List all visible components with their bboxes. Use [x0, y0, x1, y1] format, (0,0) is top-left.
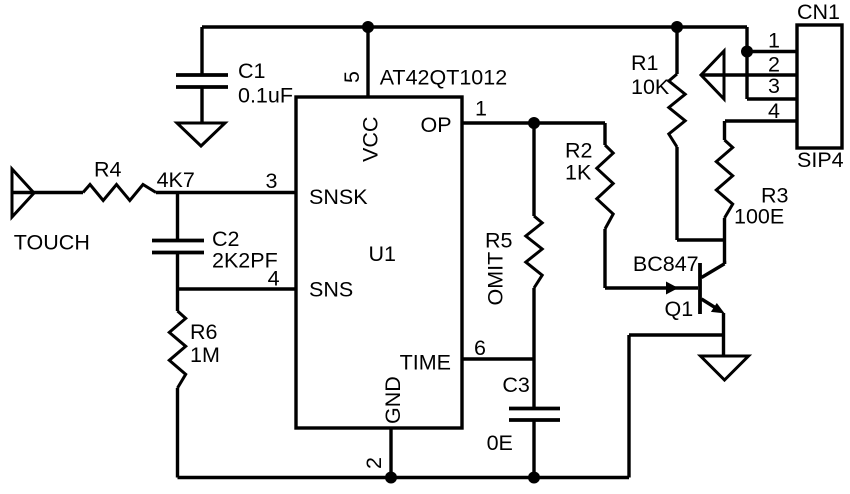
svg-text:OMIT: OMIT — [484, 252, 508, 306]
TOUCH electrode symbol — [12, 169, 34, 217]
wire R1 to collector node — [677, 238, 724, 241]
svg-text:Q1: Q1 — [665, 297, 694, 321]
ground (Q1 emitter) — [701, 356, 749, 380]
svg-text:SNS: SNS — [309, 278, 353, 302]
svg-text:AT42QT1012: AT42QT1012 — [380, 66, 507, 90]
svg-text:4: 4 — [768, 99, 780, 123]
svg-text:R2: R2 — [565, 138, 592, 162]
node C3 bottom junction — [528, 472, 540, 484]
svg-text:CN1: CN1 — [797, 0, 840, 24]
svg-text:C3: C3 — [502, 373, 530, 397]
arrow into base — [666, 282, 678, 295]
svg-text:1M: 1M — [190, 343, 220, 367]
svg-text:5: 5 — [340, 71, 364, 83]
resistor R1 — [669, 27, 685, 240]
svg-text:1: 1 — [768, 29, 780, 53]
wire TIME pin 6 — [462, 357, 534, 360]
svg-text:0E: 0E — [487, 431, 513, 455]
svg-text:4K7: 4K7 — [157, 168, 195, 192]
svg-text:3: 3 — [266, 169, 278, 193]
wire emitter return L — [629, 335, 724, 478]
resistor R6 — [169, 289, 185, 478]
svg-text:GND: GND — [381, 376, 405, 424]
wire VCC pin 5 — [366, 27, 369, 97]
svg-text:4: 4 — [268, 267, 280, 291]
svg-text:R1: R1 — [631, 51, 658, 75]
svg-text:10K: 10K — [631, 75, 670, 99]
svg-text:C1: C1 — [238, 59, 265, 83]
node R1 top junction — [671, 21, 683, 33]
wire GND pin 2 — [389, 428, 392, 478]
node GND junction — [385, 472, 397, 484]
svg-text:R4: R4 — [94, 158, 122, 182]
transistor Q1 BC847 — [700, 263, 725, 356]
svg-text:1: 1 — [475, 97, 487, 121]
svg-text:3: 3 — [768, 74, 780, 98]
wire SNS pin 4 — [178, 287, 297, 290]
resistor R4 — [83, 185, 156, 201]
svg-text:VCC: VCC — [359, 117, 383, 162]
svg-text:OP: OP — [421, 113, 452, 137]
svg-text:2: 2 — [362, 457, 386, 469]
node OP junction — [528, 117, 540, 129]
wire bottom ground rail — [178, 476, 630, 479]
svg-text:C2: C2 — [212, 227, 239, 251]
svg-text:TIME: TIME — [400, 351, 451, 375]
svg-text:BC847: BC847 — [633, 252, 699, 276]
svg-text:100E: 100E — [734, 205, 784, 229]
touch electrode symbol (CN1 pin 2) — [701, 51, 724, 99]
wire OP pin 1 output — [462, 121, 605, 124]
svg-text:TOUCH: TOUCH — [14, 231, 90, 255]
svg-text:6: 6 — [474, 336, 486, 360]
svg-text:R6: R6 — [190, 320, 218, 344]
svg-text:SIP4: SIP4 — [797, 148, 844, 172]
wire VCC top rail — [202, 25, 747, 28]
wire TOUCH to R4 — [12, 191, 83, 194]
svg-text:2: 2 — [768, 53, 780, 77]
capacitor C3 — [509, 359, 560, 478]
resistor R2 — [597, 123, 613, 288]
svg-text:U1: U1 — [369, 242, 396, 266]
wire pin 4 — [725, 119, 797, 122]
ground (C1) — [177, 123, 225, 146]
connector CN1 — [797, 25, 842, 148]
resistor R3 — [716, 121, 732, 264]
wire R2 to Q1 base — [605, 286, 698, 289]
resistor R5 — [526, 123, 542, 359]
wire pin 1 — [747, 50, 797, 53]
wire pin 3 — [747, 97, 797, 100]
node VCC junction (pin 5) — [362, 21, 374, 33]
node pin1 junction — [741, 46, 753, 58]
svg-text:1K: 1K — [565, 161, 592, 185]
IC U1 AT42QT1012 — [296, 97, 462, 428]
svg-text:R5: R5 — [485, 229, 513, 253]
wire CN1 feed drop — [745, 27, 748, 99]
wire pin 2 — [701, 73, 797, 76]
svg-text:0.1uF: 0.1uF — [238, 83, 293, 107]
svg-text:SNSK: SNSK — [309, 185, 368, 209]
capacitor C1 — [176, 27, 228, 123]
wire R4 to SNSK pin 3 — [156, 191, 296, 194]
capacitor C2 — [152, 193, 204, 290]
